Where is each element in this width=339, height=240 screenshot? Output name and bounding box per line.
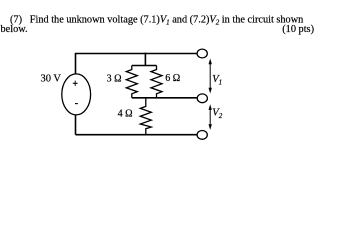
svg-text:3 Ω: 3 Ω — [107, 73, 122, 84]
arrow V1 double headed — [209, 59, 212, 94]
terminal node bottom — [197, 131, 207, 140]
wire bottom rail — [76, 134, 198, 136]
svg-text:30 V: 30 V — [41, 73, 62, 84]
wire middle rail to terminal — [132, 97, 197, 99]
arrow V2 double headed — [209, 104, 212, 130]
wire left rail lower stub — [75, 115, 77, 135]
resistor R1 3ohm — [126, 66, 137, 98]
resistor R2 6ohm — [151, 66, 162, 98]
wire stub from top rail to parallel pair — [144, 53, 146, 66]
voltage source VS 30V — [62, 74, 91, 115]
svg-text:6 Ω: 6 Ω — [165, 73, 180, 84]
svg-text:V2: V2 — [212, 108, 222, 120]
terminal node top — [197, 49, 207, 58]
resistor R3 4ohm — [140, 98, 151, 135]
svg-text:(7) Find the unknown voltage: (7) Find the unknown voltage (7.1)V1 and… — [10, 14, 303, 26]
wire top rail — [76, 53, 198, 55]
wire top bar of parallel resistor pair — [132, 65, 157, 67]
wire left rail upper stub — [75, 53, 77, 74]
svg-text:4 Ω: 4 Ω — [118, 109, 133, 120]
svg-text:below.: below. — [1, 24, 28, 35]
svg-text:V1: V1 — [212, 74, 222, 86]
terminal node middle — [197, 94, 207, 103]
svg-text:(10 pts): (10 pts) — [282, 24, 314, 35]
